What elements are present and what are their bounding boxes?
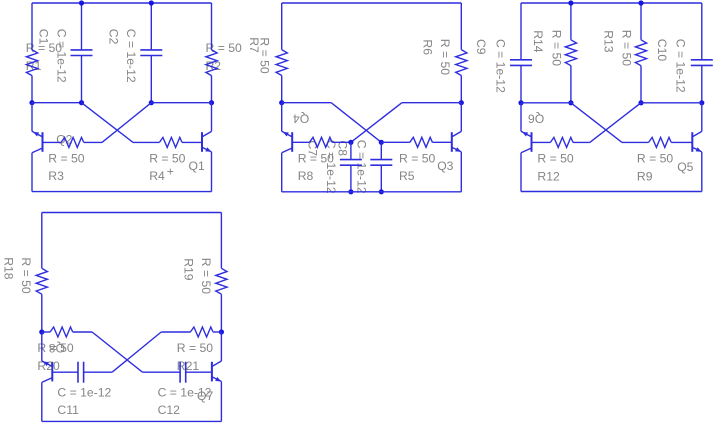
wire VCC rail 1 (top) xyxy=(32,2,212,4)
wire mid-right 1 xyxy=(151,102,211,104)
wire Q7 emitter down xyxy=(220,382,222,422)
svg-text:R = 50: R = 50 xyxy=(199,258,213,294)
resistor R2 xyxy=(206,50,217,76)
wire base-left a 1 xyxy=(84,141,102,143)
svg-text:R3: R3 xyxy=(48,169,64,183)
svg-text:R12: R12 xyxy=(537,169,560,183)
svg-text:C = 1e-12: C = 1e-12 xyxy=(57,385,111,399)
wire ground rail 1 (bottom) xyxy=(32,191,212,193)
svg-text:R8: R8 xyxy=(298,169,314,183)
resistor R9 xyxy=(649,137,672,147)
svg-text:R18: R18 xyxy=(2,257,16,280)
svg-text:R6: R6 xyxy=(420,39,434,55)
wire Q3 emitter down xyxy=(460,152,462,192)
svg-text:R9: R9 xyxy=(637,169,653,183)
svg-text:R4: R4 xyxy=(149,169,165,183)
svg-text:Q3: Q3 xyxy=(437,159,453,173)
resistor R5 xyxy=(410,137,433,147)
transistor Q6 xyxy=(521,131,532,153)
wire base-left a 3 xyxy=(573,141,590,143)
svg-text:R = 50: R = 50 xyxy=(19,257,33,293)
wire VCC rail 4 (top) xyxy=(42,212,222,214)
svg-text:R20: R20 xyxy=(37,359,60,373)
svg-text:R = 50: R = 50 xyxy=(619,30,633,66)
svg-text:R13: R13 xyxy=(601,30,615,53)
resistor R3 xyxy=(61,137,84,147)
node R13 top xyxy=(638,0,643,5)
wire base-left a 2 xyxy=(292,141,309,143)
wire right rail lower 2 xyxy=(460,76,462,103)
wire base-left b 3 xyxy=(532,141,551,143)
wire R21 stub xyxy=(213,331,221,333)
svg-text:R = 50: R = 50 xyxy=(637,151,673,165)
wire Q2 collector down xyxy=(31,153,33,192)
resistor R20 xyxy=(50,327,73,337)
transistor Q3 xyxy=(452,131,462,152)
transistor Q4 xyxy=(282,131,293,153)
node C7 top xyxy=(348,140,353,145)
transistor Q8 xyxy=(42,361,53,383)
wire ground rail 3 (bottom) xyxy=(521,191,702,193)
wire mid-right 2 xyxy=(402,102,461,104)
node C8 top xyxy=(379,140,384,145)
wire right rail to Q5 xyxy=(701,103,703,132)
svg-text:R = 50: R = 50 xyxy=(258,37,272,73)
svg-text:C12: C12 xyxy=(158,403,181,417)
wire cross to C12 xyxy=(143,371,181,373)
resistor R6 xyxy=(456,50,467,76)
svg-text:Q8: Q8 xyxy=(49,341,65,355)
wire right rail lower 4 xyxy=(220,294,222,332)
node C1 bottom xyxy=(79,100,84,105)
svg-text:R19: R19 xyxy=(181,258,195,281)
wire base-right a 1 xyxy=(133,141,159,143)
capacitor C1 xyxy=(71,3,93,103)
wire ground rail 4 (bottom) xyxy=(42,420,222,422)
wire Q8 collector down xyxy=(41,382,43,421)
wire R13 bottom xyxy=(640,66,642,103)
node left mid 2 xyxy=(279,100,284,105)
capacitor C11 xyxy=(77,362,79,383)
wire R14 bottom xyxy=(570,66,572,103)
svg-text:C = 1e-12: C = 1e-12 xyxy=(124,29,138,83)
wire Q6 collector down xyxy=(520,153,522,192)
svg-text:C11: C11 xyxy=(57,403,79,417)
wire base-left b 1 xyxy=(43,141,62,143)
svg-text:C1: C1 xyxy=(37,29,51,45)
wire R20 stub xyxy=(42,331,50,333)
svg-text:R = 50: R = 50 xyxy=(549,30,563,66)
wire mid-left 2 xyxy=(282,102,332,104)
wire cross A 3 xyxy=(571,103,622,143)
resistor R4 xyxy=(159,137,182,147)
node right 4 xyxy=(219,329,224,334)
resistor R19 xyxy=(216,268,227,294)
svg-text:R5: R5 xyxy=(399,169,415,183)
wire cross B 2 xyxy=(351,103,402,143)
wire base-left b 2 xyxy=(332,141,351,143)
wire R21 to cross xyxy=(161,331,190,333)
wire cross B 1 xyxy=(102,103,151,143)
wire right rail to Q3 xyxy=(460,103,462,132)
svg-text:C10: C10 xyxy=(655,39,669,62)
wire right rail to Q1 xyxy=(211,103,213,132)
wire left rail to Q2 xyxy=(31,103,33,132)
capacitor C9 xyxy=(510,3,532,103)
transistor Q5 xyxy=(692,131,702,152)
wire Q5 emitter down xyxy=(701,152,703,192)
wire ground rail 2 (bottom) xyxy=(282,191,462,193)
wire left rail upper 1 xyxy=(31,3,33,50)
svg-text:C = 1e-12: C = 1e-12 xyxy=(673,39,687,93)
wire cross A 1 xyxy=(82,103,134,143)
wire right rail upper 1 xyxy=(211,3,213,50)
svg-text:C = 1e-12: C = 1e-12 xyxy=(355,140,369,194)
svg-text:C9: C9 xyxy=(474,39,488,55)
node R14 bottom xyxy=(568,100,573,105)
wire left rail upper 4 xyxy=(41,213,43,269)
svg-text:R = 50: R = 50 xyxy=(149,151,185,165)
svg-text:Q7: Q7 xyxy=(197,389,213,403)
svg-text:R = 50: R = 50 xyxy=(399,151,435,165)
wire R20 to cross xyxy=(73,331,92,333)
svg-text:Q5: Q5 xyxy=(677,160,693,174)
svg-text:+: + xyxy=(167,165,174,179)
wire mid-left 3 xyxy=(521,102,571,104)
node C7 bottom xyxy=(348,189,353,194)
node right mid 2 xyxy=(459,100,464,105)
svg-text:Q6: Q6 xyxy=(528,112,544,126)
wire left rail lower 4 xyxy=(41,294,43,332)
wire cross B 3 xyxy=(590,103,641,143)
wire right rail upper 4 xyxy=(220,213,222,269)
wire left rail lower 2 xyxy=(281,76,283,103)
wire cross A 4 xyxy=(92,332,142,372)
transistor Q7 xyxy=(212,361,222,382)
resistor R21 xyxy=(190,327,213,337)
node left mid 1 xyxy=(29,100,34,105)
wire right rail lower 1 xyxy=(211,76,213,103)
wire left rail to Q4 xyxy=(281,103,283,132)
wire mid-right 3 xyxy=(641,102,702,104)
resistor R14 xyxy=(565,40,576,66)
svg-text:Q1: Q1 xyxy=(189,159,205,173)
svg-text:Q4: Q4 xyxy=(293,111,309,125)
svg-text:C = 1e-12: C = 1e-12 xyxy=(493,39,507,93)
transistor Q1 xyxy=(202,131,212,152)
wire C11 to cross xyxy=(84,371,113,373)
node C8 bottom xyxy=(379,189,384,194)
wire base-right a 2 xyxy=(381,141,410,143)
resistor R18 xyxy=(36,268,47,294)
resistor R12 xyxy=(550,137,573,147)
svg-text:R = 50: R = 50 xyxy=(537,151,573,165)
wire R13 top xyxy=(640,3,642,40)
wire cross B 4 xyxy=(112,332,161,372)
wire base-right b 3 xyxy=(671,141,692,143)
wire cross A 2 xyxy=(331,103,381,143)
capacitor C10 xyxy=(691,3,713,103)
resistor R8 xyxy=(310,137,333,147)
wire R14 top xyxy=(570,3,572,40)
svg-text:C2: C2 xyxy=(107,29,121,45)
node C1 top xyxy=(79,0,84,5)
wire Q1 emitter down xyxy=(211,152,213,192)
wire left rail upper 2 xyxy=(281,3,283,50)
wire VCC rail 3 (top) xyxy=(521,2,702,4)
svg-text:R = 50: R = 50 xyxy=(48,151,84,165)
capacitor C8 xyxy=(370,142,392,192)
node left 4 xyxy=(39,329,44,334)
wire base-right b 2 xyxy=(432,141,451,143)
node R14 top xyxy=(568,0,573,5)
svg-text:R = 50: R = 50 xyxy=(177,341,213,355)
node left mid 3 xyxy=(518,100,523,105)
capacitor C7 xyxy=(340,142,362,192)
node R13 bottom xyxy=(638,100,643,105)
node C2 bottom xyxy=(149,100,154,105)
wire left rail to Q6 xyxy=(520,103,522,132)
svg-text:C = 1e-12: C = 1e-12 xyxy=(54,29,68,83)
wire Q8 base to C11 xyxy=(52,371,78,373)
svg-text:R = 50: R = 50 xyxy=(438,39,452,75)
svg-text:R14: R14 xyxy=(531,30,545,53)
transistor Q2 xyxy=(32,131,43,153)
node C2 top xyxy=(149,0,154,5)
wire right rail to Q7 xyxy=(220,332,222,361)
wire left rail lower 1 xyxy=(31,76,33,103)
wire Q4 collector down xyxy=(281,153,283,192)
wire mid-left 1 xyxy=(32,102,82,104)
wire base-right a 3 xyxy=(622,141,649,143)
node right mid 3 xyxy=(699,100,704,105)
resistor R13 xyxy=(635,40,646,66)
wire left rail to Q8 xyxy=(41,332,43,361)
wire VCC rail 2 (top) xyxy=(282,2,462,4)
capacitor C2 xyxy=(140,3,162,103)
wire C12 to Q7 xyxy=(186,371,212,373)
wire base-right b 1 xyxy=(182,141,202,143)
node right mid 1 xyxy=(209,100,214,105)
resistor R7 xyxy=(276,50,287,76)
wire right rail upper 2 xyxy=(460,3,462,50)
capacitor C12 xyxy=(179,362,181,383)
resistor R1 xyxy=(26,50,37,76)
